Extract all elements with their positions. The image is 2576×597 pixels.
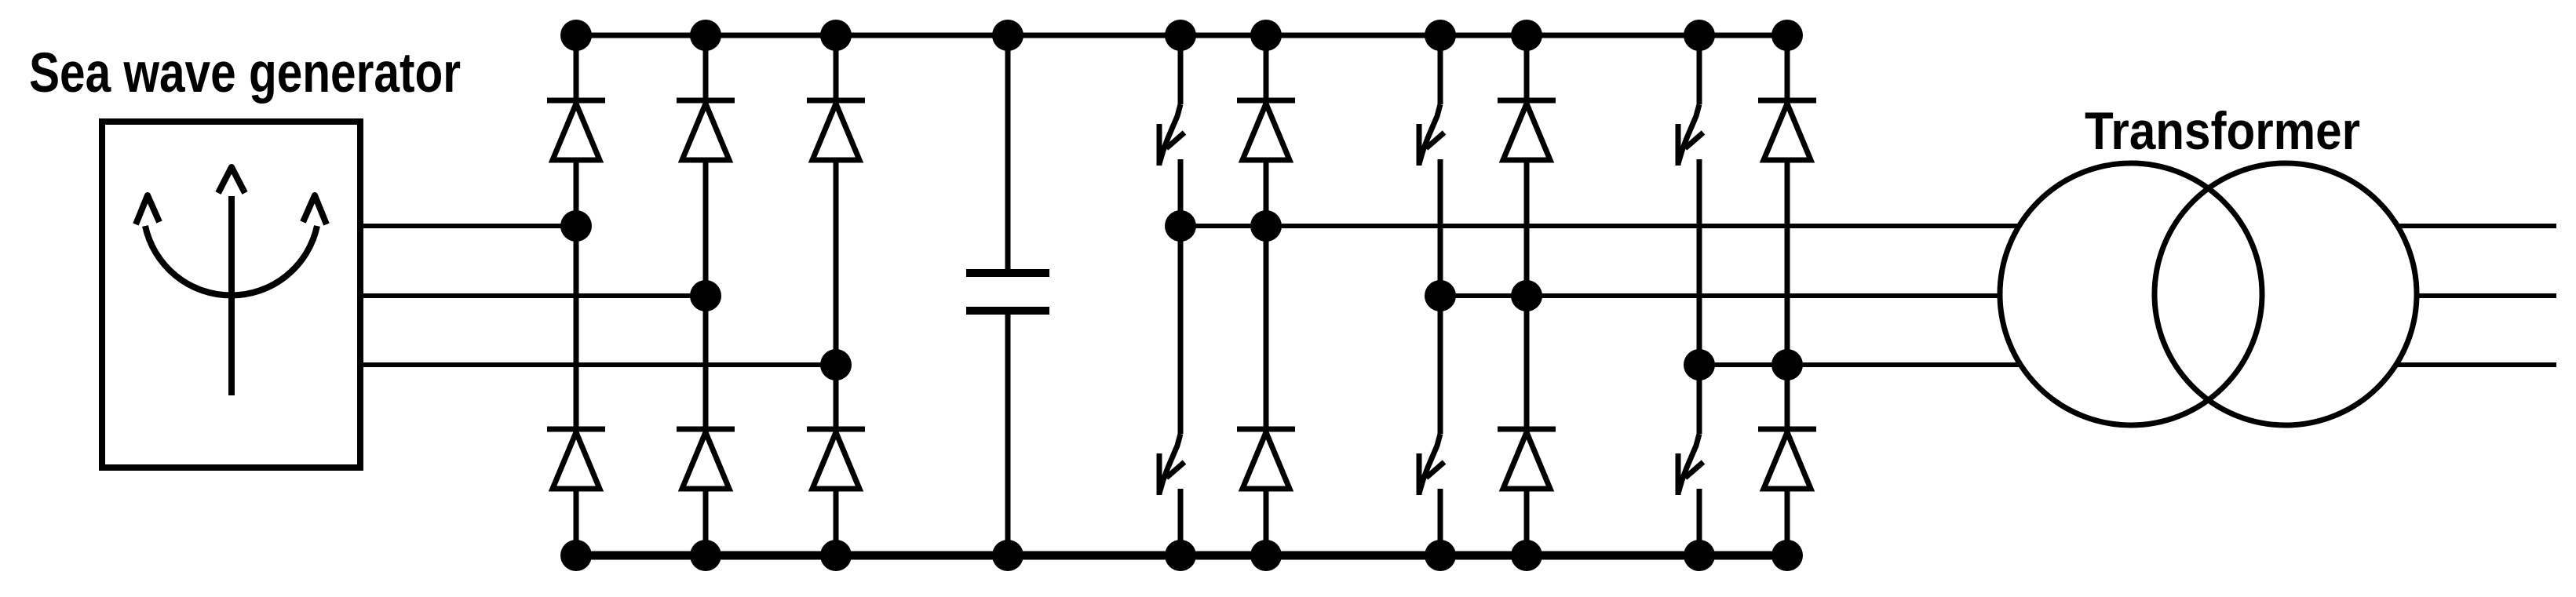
node: bottom bus junction x=1504 [1165,540,1196,571]
wire: inverter leg 3 switch lower lead [1697,489,1702,555]
wire: inverter leg 2 switch mid lead [1438,159,1443,434]
wire: secondary phase B [2417,293,2556,298]
diode D1b (rectifier bottom) [547,429,605,489]
diode D4b (inverter bottom) [1237,429,1295,489]
wire: inverter leg 1 diode upper lead [1264,35,1269,100]
switch S2a (inverter top) [1419,104,1444,166]
node: bottom bus junction x=1835 [1425,540,1456,571]
wire: rectifier leg 2 lower [703,489,709,555]
node: phase C inverter diode junction [1771,349,1803,380]
switch S1a (inverter top) [1159,104,1184,166]
wire: rectifier leg 2 middle [703,160,709,429]
wire: inverter leg 3 switch mid lead [1697,159,1702,434]
node: bottom bus junction x=734 [560,540,592,571]
capacitor C1 bottom plate [966,307,1049,315]
diode D2b (rectifier bottom) [677,429,735,489]
diode D6a (inverter top) [1758,100,1816,160]
wire: inverter leg 2 diode upper lead [1524,35,1530,100]
node: top bus junction x=1613 [1250,20,1282,51]
wire: DC- bottom bus [576,551,1787,560]
wire: rectifier leg 2 upper [703,35,709,100]
node: bottom bus junction x=1613 [1250,540,1282,571]
generator symbol: wave arc [145,226,317,295]
node: phase C rectifier junction [820,349,852,380]
node: bottom bus junction x=1945 [1511,540,1542,571]
wire: inverter leg 2 switch upper lead [1438,35,1443,104]
switch S2b (inverter bottom) [1419,434,1444,495]
wire: capacitor bottom lead [1005,311,1011,555]
wire: DC+ top bus [576,33,1787,38]
node: top bus junction x=1284 [992,20,1023,51]
diode D1a (rectifier top) [547,100,605,160]
wire: rectifier leg 1 upper [574,35,579,100]
wire: capacitor top lead [1005,35,1011,273]
node: phase B inverter diode junction [1511,280,1542,311]
generator symbol: center arrow head [218,167,245,193]
diode D6b (inverter bottom) [1758,429,1816,489]
node: top bus junction x=1835 [1425,20,1456,51]
node: phase B rectifier junction [690,280,721,311]
wire: phase B inverter to transformer [1440,293,2000,298]
wire: inverter leg 1 switch mid lead [1178,159,1184,434]
wire: rectifier leg 3 middle [834,160,839,429]
wire: generator phase A [360,224,576,228]
generator symbol: arc right arrowhead [303,195,327,224]
node: phase A inverter diode junction [1250,210,1282,242]
wire: inverter leg 3 diode upper lead [1785,35,1790,100]
switch S1b (inverter bottom) [1159,434,1184,495]
transformer T1 primary winding [2000,163,2262,425]
wire: phase C inverter to transformer [1699,362,2021,367]
capacitor C1 top plate [966,269,1049,277]
diode D2a (rectifier top) [677,100,735,160]
generator symbol: arc left arrowhead [136,195,159,224]
switch S3b (inverter bottom) [1678,434,1703,495]
wire: inverter leg 1 switch upper lead [1178,35,1184,104]
node: bottom bus junction x=2277 [1771,540,1803,571]
node: bottom bus junction x=2165 [1684,540,1715,571]
wire: inverter leg 3 diode mid lead [1785,160,1790,429]
node: phase B inverter switch junction [1425,280,1456,311]
wire: inverter leg 1 diode mid lead [1264,160,1269,429]
generator symbol: center arrow shaft [228,196,235,395]
wire: inverter leg 2 diode mid lead [1524,160,1530,429]
node: top bus junction x=2165 [1684,20,1715,51]
switch S3a (inverter top) [1678,104,1703,166]
wire: phase A inverter to transformer [1180,224,2019,228]
wire: rectifier leg 3 upper [834,35,839,100]
transformer T1 secondary winding [2155,163,2417,425]
node: top bus junction x=899 [690,20,721,51]
wire: inverter leg 3 switch upper lead [1697,35,1702,104]
wire: generator phase B [360,293,706,298]
node: bottom bus junction x=1065 [820,540,852,571]
diode D4a (inverter top) [1237,100,1295,160]
generator box G1 [102,122,360,468]
wire: rectifier leg 3 lower [834,489,839,555]
wire: inverter leg 2 diode lower lead [1524,489,1530,555]
diode D5a (inverter top) [1498,100,1556,160]
node: top bus junction x=1945 [1511,20,1542,51]
wire: inverter leg 2 switch lower lead [1438,489,1443,555]
wire: secondary phase A [2398,224,2556,228]
node: phase C inverter switch junction [1684,349,1715,380]
node: top bus junction x=1504 [1165,20,1196,51]
diode D3b (rectifier bottom) [807,429,865,489]
node: top bus junction x=2277 [1771,20,1803,51]
wire: rectifier leg 1 lower [574,489,579,555]
node: top bus junction x=734 [560,20,592,51]
wire: generator phase C [360,362,836,367]
node: bottom bus junction x=899 [690,540,721,571]
node: bottom bus junction x=1284 [992,540,1023,571]
wire: inverter leg 1 switch lower lead [1178,489,1184,555]
diode D3a (rectifier top) [807,100,865,160]
svg-text:Sea wave generator: Sea wave generator [29,42,461,104]
node: phase A inverter switch junction [1165,210,1196,242]
svg-text:Transformer: Transformer [2085,101,2360,161]
node: top bus junction x=1065 [820,20,852,51]
wire: inverter leg 1 diode lower lead [1264,489,1269,555]
wire: rectifier leg 1 middle [574,160,579,429]
wire: inverter leg 3 diode lower lead [1785,489,1790,555]
node: phase A rectifier junction [560,210,592,242]
diode D5b (inverter bottom) [1498,429,1556,489]
wire: secondary phase C [2396,362,2556,367]
